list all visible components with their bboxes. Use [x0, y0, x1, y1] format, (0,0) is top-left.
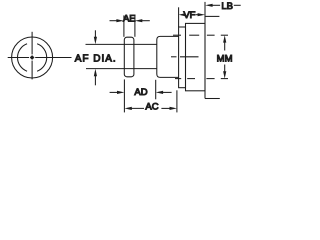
ring section face [179, 27, 186, 88]
AE left extension line [123, 15, 125, 36]
svg-text:AC: AC [145, 101, 158, 112]
MM down arrow [223, 65, 226, 79]
svg-text:MM: MM [217, 53, 233, 64]
AF dia up arrow [94, 69, 97, 86]
VF right arrow [196, 13, 205, 16]
hidden line bottom (dashed) [175, 78, 228, 80]
label AE [123, 13, 136, 24]
AC right arrow [161, 107, 177, 110]
head left face + LB/VF extension [204, 2, 206, 99]
AD left arrow [110, 91, 125, 94]
LB trailing dash [234, 4, 241, 6]
head bottom edge (dangling) [205, 98, 220, 100]
svg-text:LB: LB [221, 1, 233, 12]
VF left arrow [179, 13, 186, 16]
svg-text:AE: AE [123, 13, 136, 24]
collar (left flange, rounded) [124, 37, 134, 77]
end view horizontal centerline [8, 57, 72, 59]
AC left arrow [124, 107, 144, 110]
label VF [183, 10, 195, 21]
hidden line top (dashed) [173, 34, 228, 36]
VF left extension line [178, 7, 180, 27]
label LB [221, 1, 233, 12]
LB left arrow [205, 4, 220, 7]
AF dia bottom extension line / shaft bottom edge [86, 68, 157, 70]
AE left arrow [110, 19, 124, 22]
label MM [217, 53, 233, 64]
svg-text:AD: AD [134, 87, 147, 98]
AC right extension line [176, 90, 178, 112]
svg-text:VF: VF [183, 10, 195, 21]
MM up arrow [223, 35, 226, 50]
AE right extension line [134, 15, 136, 36]
svg-text:AF DIA.: AF DIA. [75, 53, 117, 64]
AF dia down arrow [94, 30, 97, 44]
end view vertical centerline [31, 32, 33, 80]
label AF DIA. [75, 53, 117, 64]
side view centerline [171, 56, 199, 58]
end view outer circle [12, 37, 53, 78]
disc section [186, 23, 206, 90]
head top edge (dangling) [205, 15, 219, 17]
medium cylinder [157, 36, 179, 77]
label AD [134, 87, 147, 98]
end view center mark diamond [30, 55, 35, 60]
AD/AC left extension line [123, 79, 125, 112]
AD right extension line [155, 80, 157, 100]
AE right arrow [135, 19, 150, 22]
label AC [145, 101, 158, 112]
end view hidden inner circle (dashed) [17, 43, 46, 72]
AD right arrow [156, 91, 172, 94]
AF dia top extension line / shaft top edge [86, 43, 157, 45]
